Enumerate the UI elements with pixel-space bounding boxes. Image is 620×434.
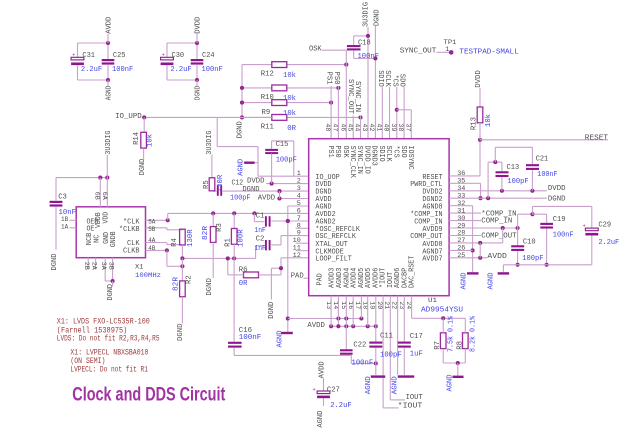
svg-text:AVDD: AVDD (307, 322, 325, 330)
svg-text:100nF: 100nF (112, 66, 133, 74)
svg-text:DGND: DGND (206, 277, 214, 295)
svg-text:24: 24 (404, 301, 412, 309)
svg-text:47: 47 (331, 123, 339, 131)
svg-text:R3: R3 (216, 223, 224, 232)
svg-text:R8: R8 (456, 341, 464, 350)
svg-text:45: 45 (345, 123, 353, 131)
svg-text:TESTPAD-SMALL: TESTPAD-SMALL (459, 49, 518, 57)
svg-text:82R: 82R (202, 225, 210, 240)
svg-text:C17: C17 (410, 333, 423, 341)
svg-text:25: 25 (457, 252, 465, 260)
svg-text:C29: C29 (598, 222, 611, 230)
svg-text:DVDD_IO: DVDD_IO (362, 146, 370, 174)
svg-text:*CS: *CS (390, 75, 398, 88)
svg-text:6B: 6B (93, 192, 101, 200)
svg-text:C25: C25 (113, 52, 126, 60)
svg-text:DGND: DGND (373, 9, 381, 26)
svg-text:19: 19 (368, 301, 376, 309)
svg-text:*CS: *CS (392, 146, 400, 158)
svg-text:DGND: DGND (236, 121, 244, 139)
svg-text:Clock and DDS Circuit: Clock and DDS Circuit (72, 385, 225, 406)
svg-text:C10: C10 (523, 238, 536, 246)
svg-text:100nF: 100nF (202, 66, 223, 74)
svg-text:R1: R1 (224, 238, 232, 247)
svg-text:+: + (313, 387, 316, 393)
svg-text:10k: 10k (485, 113, 493, 127)
svg-text:OE: OE (87, 225, 95, 233)
svg-text:R7: R7 (434, 341, 442, 350)
svg-text:R2: R2 (186, 275, 194, 284)
svg-text:SDIO: SDIO (377, 146, 385, 162)
svg-text:DGND: DGND (194, 85, 202, 100)
svg-text:LOOP_FILT: LOOP_FILT (315, 255, 351, 263)
svg-text:PAD: PAD (316, 273, 324, 285)
svg-text:SYNC_IN: SYNC_IN (355, 146, 363, 174)
svg-text:1nF: 1nF (254, 227, 266, 235)
svg-text:PS1: PS1 (325, 72, 333, 86)
svg-text:2.2uF: 2.2uF (170, 66, 191, 74)
svg-text:2.2uF: 2.2uF (330, 402, 351, 410)
svg-text:130R: 130R (187, 229, 195, 247)
svg-text:100MHz: 100MHz (135, 272, 161, 280)
svg-text:PS0: PS0 (332, 72, 340, 85)
svg-text:TP1: TP1 (444, 39, 457, 47)
svg-text:SCLK: SCLK (384, 146, 392, 163)
svg-text:R14: R14 (133, 131, 141, 145)
svg-text:AGND: AGND (460, 272, 468, 290)
svg-text:DGND3: DGND3 (370, 146, 378, 166)
svg-text:C13: C13 (507, 164, 520, 172)
svg-text:COMP_OUT: COMP_OUT (481, 233, 516, 241)
svg-text:AVDD: AVDD (319, 361, 327, 379)
svg-text:X1: LVPECL NBXSBA010: X1: LVPECL NBXSBA010 (70, 349, 148, 357)
svg-text:X1: X1 (135, 263, 144, 271)
svg-text:IOSYNC: IOSYNC (406, 146, 414, 170)
svg-text:6A: 6A (100, 192, 108, 201)
svg-text:C27: C27 (327, 387, 340, 395)
svg-text:44: 44 (353, 123, 361, 131)
svg-text:AVDD: AVDD (487, 253, 507, 261)
svg-text:DVDD: DVDD (247, 177, 265, 185)
svg-text:37: 37 (403, 123, 411, 131)
svg-text:3U3DIG: 3U3DIG (105, 131, 113, 155)
svg-text:10k: 10k (283, 95, 297, 103)
svg-text:NC: NC (93, 235, 101, 243)
svg-text:AD9954YSU: AD9954YSU (421, 307, 463, 315)
svg-text:AGND: AGND (238, 158, 246, 176)
svg-text:C24: C24 (202, 52, 215, 60)
svg-text:AVDD: AVDD (258, 194, 276, 202)
svg-text:2.2uF: 2.2uF (598, 239, 619, 247)
svg-text:R5: R5 (203, 180, 211, 189)
svg-text:DGND: DGND (548, 195, 566, 203)
svg-text:(Farnell 1538975): (Farnell 1538975) (57, 327, 128, 335)
svg-text:OSK: OSK (341, 146, 349, 159)
svg-text:IO_UPD: IO_UPD (115, 113, 142, 121)
svg-text:100nF: 100nF (537, 171, 557, 179)
svg-text:+: + (583, 224, 586, 230)
svg-text:3U3DIG: 3U3DIG (206, 131, 214, 155)
svg-text:10k: 10k (283, 72, 297, 80)
svg-text:C11: C11 (380, 333, 394, 341)
svg-text:R11: R11 (261, 124, 275, 132)
svg-text:100nF: 100nF (352, 359, 374, 367)
svg-text:40: 40 (382, 123, 390, 131)
svg-text:AVDD: AVDD (105, 16, 113, 34)
svg-text:CLKB: CLKB (123, 247, 140, 255)
svg-text:DGND: DGND (107, 283, 115, 300)
svg-text:R10: R10 (261, 94, 274, 102)
svg-text:DVDD: DVDD (194, 16, 202, 34)
svg-text:2A: 2A (89, 262, 97, 271)
svg-text:100pF: 100pF (276, 157, 297, 165)
svg-text:AGND: AGND (317, 410, 325, 428)
svg-text:48: 48 (323, 123, 331, 131)
svg-text:130R: 130R (217, 174, 225, 192)
svg-text:100nF: 100nF (358, 53, 380, 61)
svg-text:DGND: DGND (51, 253, 59, 271)
svg-text:17: 17 (353, 301, 361, 309)
svg-text:82R: 82R (173, 276, 181, 291)
svg-text:42: 42 (367, 123, 375, 131)
svg-text:DVDD: DVDD (475, 70, 483, 88)
svg-text:100pF: 100pF (507, 178, 528, 186)
svg-text:0R: 0R (287, 125, 296, 133)
svg-text:R13: R13 (470, 117, 478, 130)
svg-text:DAC_RSET: DAC_RSET (409, 256, 417, 288)
svg-text:SYNC_OUT: SYNC_OUT (400, 48, 437, 56)
svg-text:100R: 100R (238, 229, 246, 247)
svg-text:DGND: DGND (268, 301, 276, 319)
svg-text:AVDD7: AVDD7 (422, 255, 442, 263)
svg-text:OSK: OSK (309, 46, 322, 54)
svg-text:7.5k 0.1%: 7.5k 0.1% (448, 315, 456, 352)
svg-text:RESET: RESET (585, 134, 609, 142)
svg-text:AGND: AGND (487, 272, 495, 290)
svg-text:8.2k 0.1%: 8.2k 0.1% (470, 315, 478, 352)
svg-text:46: 46 (338, 123, 346, 131)
svg-text:C21: C21 (536, 156, 549, 164)
svg-text:10k: 10k (283, 110, 297, 118)
svg-text:X1: LVDS FXO-LC535R-100: X1: LVDS FXO-LC535R-100 (57, 318, 150, 326)
svg-text:C3: C3 (58, 193, 67, 201)
svg-text:C30: C30 (172, 52, 185, 60)
svg-text:43: 43 (360, 123, 368, 131)
svg-text:C19: C19 (553, 216, 566, 224)
svg-text:R12: R12 (261, 71, 274, 79)
svg-text:AGND3: AGND3 (336, 268, 344, 288)
svg-text:PS1: PS1 (326, 146, 334, 158)
svg-text:12: 12 (293, 252, 301, 260)
svg-text:LVDS: Do not fit R2,R3,R4,R5: LVDS: Do not fit R2,R3,R4,R5 (57, 336, 160, 344)
svg-text:GNDB: GNDB (110, 232, 118, 248)
svg-text:(ON SEMI): (ON SEMI) (70, 358, 105, 366)
svg-text:DGND: DGND (242, 186, 260, 194)
svg-text:1A: 1A (61, 224, 69, 232)
svg-text:3U3DIG: 3U3DIG (362, 2, 370, 27)
svg-text:100pF: 100pF (522, 255, 543, 263)
svg-text:PS0: PS0 (333, 146, 341, 158)
svg-text:2.2uF: 2.2uF (81, 66, 102, 74)
svg-text:PAD: PAD (291, 273, 305, 281)
svg-text:100nF: 100nF (239, 334, 261, 342)
svg-text:DGND: DGND (177, 323, 185, 341)
svg-text:39: 39 (389, 123, 397, 131)
svg-text:100nF: 100nF (553, 231, 574, 239)
svg-text:C18: C18 (358, 39, 371, 47)
svg-text:+: + (162, 53, 165, 59)
svg-text:SYNC_OUT: SYNC_OUT (346, 79, 354, 115)
svg-text:C31: C31 (82, 52, 95, 60)
svg-text:1nF: 1nF (254, 245, 266, 253)
svg-text:R4: R4 (171, 238, 179, 247)
svg-text:100pF: 100pF (230, 194, 251, 202)
svg-text:+: + (72, 53, 75, 59)
svg-text:SCLK: SCLK (383, 70, 391, 87)
svg-text:*IOUT: *IOUT (398, 402, 423, 410)
svg-text:R6: R6 (239, 266, 248, 274)
svg-text:5B: 5B (148, 226, 155, 234)
svg-text:0R: 0R (239, 280, 248, 288)
svg-text:SDO: SDO (398, 74, 406, 88)
svg-text:AGND: AGND (391, 376, 399, 395)
svg-text:SDIO: SDIO (376, 70, 384, 87)
svg-text:DVDD: DVDD (548, 185, 566, 193)
svg-text:2B: 2B (82, 262, 90, 270)
svg-text:AGND: AGND (105, 85, 113, 100)
svg-text:1: 1 (445, 46, 449, 54)
svg-text:4B: 4B (148, 245, 155, 253)
svg-text:LVPECL: Do not fit R1: LVPECL: Do not fit R1 (70, 367, 148, 375)
svg-text:SYNC_CLK: SYNC_CLK (348, 146, 356, 179)
svg-text:R9: R9 (262, 109, 271, 117)
svg-text:IOUT: IOUT (406, 394, 424, 402)
svg-text:100pF: 100pF (380, 352, 402, 360)
svg-text:C1: C1 (256, 212, 265, 220)
svg-text:*CLKB: *CLKB (119, 226, 140, 234)
svg-text:3A: 3A (99, 262, 107, 271)
svg-text:COMP_IN: COMP_IN (481, 218, 512, 226)
svg-text:10k: 10k (146, 133, 154, 147)
svg-text:DGND: DGND (139, 158, 147, 175)
svg-text:AGND: AGND (276, 330, 284, 348)
svg-text:C15: C15 (276, 141, 289, 149)
svg-text:SDO: SDO (399, 146, 407, 158)
svg-text:SYNC_IN: SYNC_IN (353, 81, 361, 112)
svg-text:AGND: AGND (447, 374, 455, 392)
svg-text:1uF: 1uF (410, 351, 423, 359)
svg-text:C2: C2 (256, 236, 265, 244)
svg-text:C22: C22 (353, 341, 366, 349)
svg-text:3B: 3B (106, 262, 114, 270)
svg-text:41: 41 (374, 123, 382, 131)
svg-text:38: 38 (396, 123, 404, 131)
svg-text:VDD: VDD (102, 212, 110, 224)
svg-text:U1: U1 (428, 297, 437, 305)
svg-text:AGND: AGND (365, 376, 373, 395)
